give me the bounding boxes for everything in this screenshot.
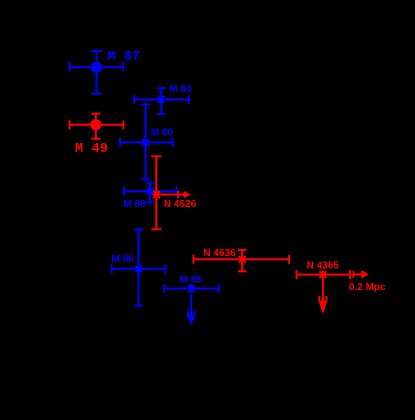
galaxy M85 error bars	[164, 284, 219, 293]
galaxy M49 marker (filled circle)	[90, 119, 101, 130]
galaxy M84 error bars	[134, 88, 189, 114]
galaxy N4365 error bars	[297, 270, 351, 279]
M85 lower-limit down arrow	[188, 294, 195, 323]
galaxy M87 marker (filled circle)	[91, 62, 102, 73]
galaxy M89 error bars	[124, 183, 177, 203]
svg-text:M 49: M 49	[75, 142, 108, 157]
galaxy M87 error bars	[70, 51, 124, 94]
galaxy M60 error bars	[120, 104, 173, 179]
svg-text:N 4636: N 4636	[203, 248, 236, 259]
galaxy M86 marker (asterisk)	[134, 265, 143, 274]
N4365 down arrow	[319, 277, 326, 311]
svg-text:M 89: M 89	[123, 199, 146, 210]
svg-text:0.2 Mpc: 0.2 Mpc	[349, 282, 386, 293]
svg-text:M 87: M 87	[107, 50, 140, 65]
galaxy M84 marker (asterisk)	[157, 95, 166, 104]
galaxy M86 error bars	[112, 229, 166, 305]
N4365 right arrow	[354, 271, 367, 278]
galaxy M85 marker (asterisk)	[187, 284, 196, 293]
svg-text:M 60: M 60	[151, 127, 174, 138]
svg-text:M 85: M 85	[179, 275, 202, 286]
galaxy N4636 marker (asterisk)	[238, 255, 247, 264]
galaxy M49 error bars	[70, 114, 124, 139]
galaxy M89 marker (asterisk)	[146, 187, 155, 196]
svg-text:M 86: M 86	[112, 254, 135, 265]
galaxy N4526 marker (asterisk)	[152, 190, 161, 199]
galaxy N4365 marker (asterisk)	[319, 270, 328, 279]
svg-text:N 4365: N 4365	[307, 260, 340, 271]
galaxy N4636 error bars	[194, 250, 290, 271]
galaxy N4526 horizontal bar and right arrow	[157, 191, 189, 198]
galaxy M60 marker (asterisk)	[141, 138, 150, 147]
svg-text:N 4526: N 4526	[164, 199, 197, 210]
svg-text:M 84: M 84	[169, 84, 192, 95]
galaxy N4526 vertical error bar	[151, 156, 161, 229]
